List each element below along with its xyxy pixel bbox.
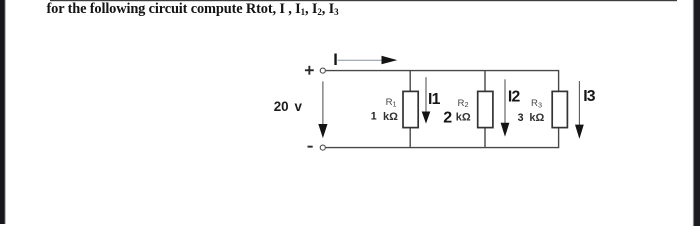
svg-text:I: I [333, 51, 338, 69]
svg-text:20 v: 20 v [274, 99, 303, 114]
svg-text:kΩ: kΩ [456, 112, 471, 124]
svg-text:R1: R1 [386, 97, 397, 108]
svg-text:I1: I1 [428, 91, 441, 108]
svg-text:3: 3 [518, 112, 524, 124]
svg-text:2: 2 [443, 110, 452, 127]
svg-text:kΩ: kΩ [383, 111, 398, 123]
svg-text:I3: I3 [583, 88, 596, 105]
svg-text:R2: R2 [458, 98, 469, 109]
svg-text:R3: R3 [531, 98, 542, 109]
svg-text:1: 1 [371, 110, 377, 122]
svg-text:kΩ: kΩ [529, 112, 544, 124]
svg-text:I2: I2 [508, 89, 521, 106]
